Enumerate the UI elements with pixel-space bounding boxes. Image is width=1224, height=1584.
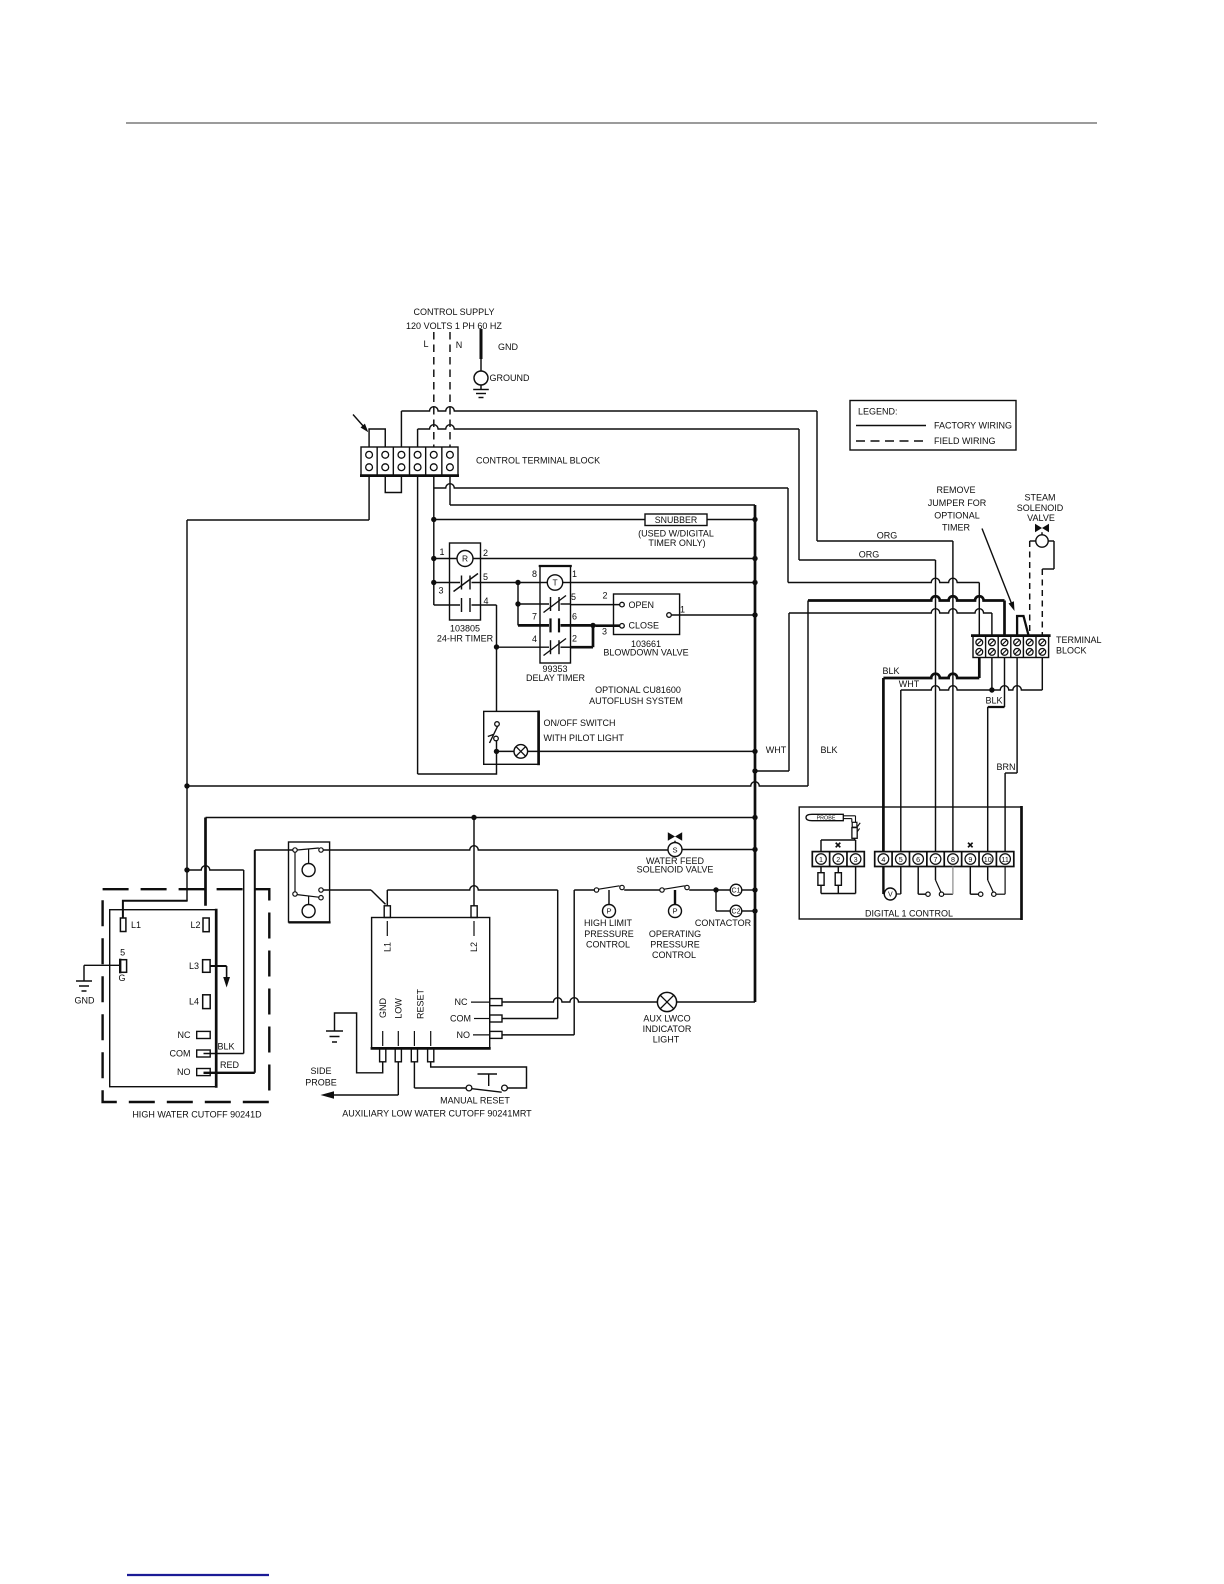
- svg-text:R: R: [462, 553, 468, 563]
- svg-text:ORG: ORG: [859, 550, 880, 560]
- wire close row bold: [518, 624, 549, 627]
- svg-text:P: P: [672, 907, 677, 916]
- terminal block right: [973, 636, 1049, 658]
- float switch box: [289, 842, 330, 922]
- aux bottom stub 2: [411, 1048, 417, 1061]
- svg-text:L1: L1: [382, 942, 392, 952]
- junction bus: [752, 749, 757, 754]
- svg-text:DIGITAL 1 CONTROL: DIGITAL 1 CONTROL: [865, 908, 953, 918]
- wire cell4 top run: [418, 425, 799, 560]
- aux bottom stub 1: [395, 1048, 401, 1061]
- hl contact left: [594, 888, 598, 892]
- float ball top: [302, 864, 315, 877]
- hwc COM stub: [197, 1050, 211, 1057]
- wire row 558.5 right: [473, 558, 755, 560]
- svg-text:GND: GND: [378, 998, 388, 1019]
- svg-text:WHT: WHT: [766, 745, 787, 755]
- wire com-blk riser: [187, 866, 244, 1054]
- aux COM dash: [474, 1018, 490, 1020]
- hwc COM wire BLK: [204, 1053, 244, 1055]
- svg-text:1: 1: [680, 605, 685, 615]
- junction bus: [752, 847, 757, 852]
- svg-text:BLK: BLK: [985, 696, 1002, 706]
- svg-text:SIDE: SIDE: [310, 1066, 331, 1076]
- wire row 582.5 left: [434, 582, 460, 584]
- svg-text:STEAM: STEAM: [1024, 493, 1055, 503]
- svg-text:CONTROL SUPPLY: CONTROL SUPPLY: [413, 307, 494, 317]
- manual reset actuator: [488, 1074, 490, 1086]
- svg-text:S: S: [672, 845, 677, 854]
- junction: [989, 687, 994, 692]
- probe capsule: [806, 814, 843, 820]
- svg-text:7: 7: [532, 612, 537, 622]
- wire red to float: [255, 849, 293, 851]
- aux NC dash: [471, 1001, 490, 1003]
- svg-text:3: 3: [854, 855, 858, 864]
- svg-text:NO: NO: [177, 1067, 191, 1077]
- junction bus: [752, 887, 757, 892]
- wire pin4 delay row: [497, 646, 550, 648]
- probe rail: [821, 893, 856, 895]
- svg-text:BLOCK: BLOCK: [1056, 646, 1087, 656]
- svg-text:PRESSURE: PRESSURE: [650, 940, 700, 950]
- hl P stem: [608, 890, 610, 905]
- svg-text:(USED W/DIGITAL: (USED W/DIGITAL: [638, 528, 714, 538]
- wire aux gnd: [335, 1013, 383, 1073]
- contactor C1: [730, 884, 742, 896]
- wire ORG1 drop to T8: [952, 541, 954, 852]
- contact delay 5 plates: [550, 597, 552, 611]
- svg-text:SOLENOID: SOLENOID: [1017, 503, 1064, 513]
- hl P circle: [603, 905, 616, 918]
- wire ORG2: [799, 559, 936, 561]
- wire cell5 branch right: [434, 484, 980, 636]
- svg-text:L2: L2: [190, 920, 200, 930]
- hwc outer dashed box: [103, 889, 270, 1102]
- junction: [184, 783, 189, 788]
- float bottom blade: [297, 895, 319, 898]
- digital strip 1-3: [812, 852, 864, 867]
- svg-text:VALVE: VALVE: [1027, 513, 1055, 523]
- svg-text:2: 2: [572, 634, 577, 644]
- resistor R1: [820, 867, 822, 873]
- aux NO dash: [473, 1034, 490, 1036]
- svg-text:HIGH LIMIT: HIGH LIMIT: [584, 918, 633, 928]
- wire ORG1: [817, 540, 953, 542]
- svg-text:OPTIONAL: OPTIONAL: [934, 511, 980, 521]
- switch contact bottom: [494, 736, 499, 741]
- svg-text:L4: L4: [189, 997, 199, 1007]
- aux lamp: [657, 992, 676, 1011]
- hwc ground symbol: [76, 980, 92, 982]
- junction bus: [752, 556, 757, 561]
- wire lamp line: [502, 998, 657, 1002]
- junction bus: [752, 908, 757, 913]
- svg-text:CLOSE: CLOSE: [629, 621, 660, 631]
- svg-text:L2: L2: [469, 942, 479, 952]
- switch contact top: [495, 722, 500, 727]
- float ball bottom: [302, 905, 315, 918]
- aux NO stub: [490, 1031, 502, 1038]
- junction: [590, 623, 595, 628]
- slash delay 2: [544, 639, 567, 656]
- 24-hr timer box: [450, 543, 481, 620]
- wire L2 hwc bold: [204, 818, 207, 906]
- junction: [431, 556, 436, 561]
- wire c1 to bus: [742, 889, 755, 891]
- float top contact right: [319, 848, 323, 852]
- wire rtb3 to T10: [988, 658, 1005, 852]
- aux bottom stub 0: [380, 1048, 386, 1061]
- svg-text:L3: L3: [189, 961, 199, 971]
- svg-text:NC: NC: [178, 1030, 191, 1040]
- svg-text:9: 9: [968, 855, 972, 864]
- GND bar: [480, 329, 483, 359]
- hwc L3 terminal: [203, 960, 211, 973]
- relay coil R: [457, 551, 473, 567]
- aux bottom stub 3: [428, 1048, 434, 1061]
- junction: [515, 580, 520, 585]
- contact 24hr NO: [461, 598, 463, 612]
- svg-text:LEGEND:: LEGEND:: [858, 407, 898, 417]
- wire L1 row right: [387, 886, 557, 890]
- svg-text:FIELD WIRING: FIELD WIRING: [934, 436, 996, 446]
- on/off switch box: [484, 711, 539, 764]
- x mark 2: [968, 843, 973, 848]
- svg-text:PROBE: PROBE: [817, 815, 836, 821]
- wire aux NO up: [502, 890, 574, 1035]
- svg-text:3: 3: [438, 586, 443, 596]
- probe heater: [852, 822, 857, 827]
- wire close branch left: [571, 646, 594, 649]
- snubber wire left: [434, 519, 645, 521]
- svg-text:CONTROL: CONTROL: [586, 940, 630, 950]
- wire float out lower: [323, 889, 371, 891]
- svg-text:NC: NC: [455, 997, 468, 1007]
- wire y786 to blk riser: [187, 601, 808, 787]
- delay timer box: [540, 566, 571, 663]
- svg-text:SOLENOID VALVE: SOLENOID VALVE: [637, 865, 714, 875]
- float bottom contact out: [319, 888, 323, 892]
- blowdown valve box: [614, 594, 680, 635]
- aux L2 stub: [471, 906, 477, 918]
- svg-text:103805: 103805: [450, 624, 480, 634]
- wire open row out: [561, 603, 571, 605]
- junction bus: [752, 768, 757, 773]
- svg-text:CONTACTOR: CONTACTOR: [695, 918, 752, 928]
- ground circle: [474, 371, 488, 385]
- wire water feed line: [323, 846, 668, 850]
- jumper staple: [1017, 616, 1029, 636]
- svg-text:10: 10: [984, 855, 992, 864]
- wire pin4 drop: [496, 605, 498, 711]
- svg-text:5: 5: [899, 855, 903, 864]
- aux L1 tick: [386, 921, 388, 936]
- V meter: [882, 867, 884, 895]
- wire rtb4 to T11 BRN: [1005, 658, 1017, 852]
- wire diagonal to L1 aux: [371, 890, 386, 904]
- svg-text:GROUND: GROUND: [490, 373, 530, 383]
- junction: [431, 580, 436, 585]
- aux L1 stub: [384, 906, 390, 918]
- wire switch to dot: [496, 741, 498, 752]
- hwc 5G terminal: [120, 960, 126, 973]
- svg-text:4: 4: [532, 634, 537, 644]
- junction bus: [752, 517, 757, 522]
- svg-text:LIGHT: LIGHT: [653, 1035, 680, 1045]
- probe leads: [843, 815, 855, 817]
- float bottom linkage: [308, 896, 310, 904]
- junction: [184, 867, 189, 872]
- probe tick: [857, 823, 860, 827]
- wire cell4 long drop: [417, 475, 419, 774]
- wire open to valve: [571, 604, 620, 606]
- hwc L1 terminal: [120, 918, 126, 932]
- svg-text:RED: RED: [220, 1060, 240, 1070]
- float top contact left: [293, 848, 297, 852]
- wire L1 feed elbow: [123, 901, 188, 918]
- svg-text:8: 8: [951, 855, 955, 864]
- svg-text:CONTROL TERMINAL BLOCK: CONTROL TERMINAL BLOCK: [476, 456, 600, 466]
- wire branch 518 down: [517, 583, 519, 605]
- svg-text:8: 8: [532, 569, 537, 579]
- jumper arrow: [982, 529, 1011, 603]
- svg-text:TIMER: TIMER: [942, 523, 970, 533]
- svg-text:NO: NO: [457, 1030, 471, 1040]
- wire reset right: [431, 1062, 527, 1088]
- wire cell5 relay bus: [433, 475, 435, 605]
- float top blade: [297, 848, 319, 850]
- wire lamp to bus: [677, 1001, 755, 1003]
- svg-text:RESET: RESET: [416, 988, 426, 1019]
- svg-text:TIMER ONLY): TIMER ONLY): [648, 538, 705, 548]
- aux bottom tick 2: [413, 1031, 415, 1046]
- aux ground symbol: [326, 1030, 343, 1032]
- svg-text:OPERATING: OPERATING: [649, 929, 701, 939]
- steam valve stem: [1041, 532, 1043, 535]
- junction: [713, 887, 718, 892]
- open terminal circle: [620, 602, 625, 607]
- wire contact to T8: [944, 893, 953, 895]
- svg-text:2: 2: [483, 548, 488, 558]
- wire onoff bottom elbow: [418, 751, 497, 774]
- hl blade: [599, 886, 620, 889]
- float bottom contact blade-end: [319, 896, 323, 900]
- pilot lamp: [514, 745, 528, 759]
- svg-text:6: 6: [916, 855, 920, 864]
- manual reset contact left: [466, 1085, 472, 1091]
- slash 24hr NC: [454, 574, 479, 592]
- steam valve left leg: [1030, 540, 1036, 542]
- svg-text:BLK: BLK: [882, 666, 899, 676]
- ground symbol: [480, 385, 482, 390]
- op contact left: [660, 888, 664, 892]
- wire branch 518 down2: [517, 604, 519, 625]
- aux L2 tick: [473, 921, 475, 936]
- snubber box: [645, 514, 707, 526]
- wire blowdown pin1 to bus: [671, 614, 755, 616]
- junction bus: [752, 815, 757, 820]
- svg-text:T: T: [552, 577, 557, 587]
- wire row 558.5 left: [434, 558, 457, 560]
- junction: [515, 601, 520, 606]
- control terminal block: [361, 447, 458, 475]
- float bottom contact left: [293, 892, 297, 896]
- hwc inner box: [110, 910, 217, 1087]
- wire high limit feed: [574, 889, 594, 891]
- junction: [471, 815, 476, 820]
- svg-text:OPTIONAL CU81600: OPTIONAL CU81600: [595, 685, 681, 695]
- float top linkage: [308, 849, 310, 864]
- manual reset blade: [472, 1089, 502, 1093]
- wire cell1 down: [368, 475, 370, 520]
- wire c2 to bus: [742, 910, 755, 912]
- hwc NO wire RED bold: [204, 1072, 255, 1074]
- svg-text:2: 2: [602, 591, 607, 601]
- op P circle: [669, 905, 682, 918]
- svg-text:WITH PILOT LIGHT: WITH PILOT LIGHT: [544, 733, 625, 743]
- steam valve right leg: [1048, 540, 1054, 542]
- wire L field dashed: [433, 332, 435, 447]
- x mark 1: [836, 843, 841, 848]
- svg-text:ON/OFF SWITCH: ON/OFF SWITCH: [544, 718, 616, 728]
- svg-text:AUTOFLUSH SYSTEM: AUTOFLUSH SYSTEM: [589, 696, 683, 706]
- contact delay 2 plates: [550, 640, 552, 654]
- aux COM stub: [490, 1015, 502, 1022]
- junction: [494, 749, 499, 754]
- op blade: [664, 886, 685, 889]
- svg-text:GND: GND: [498, 342, 519, 352]
- svg-text:5: 5: [120, 948, 125, 958]
- page top rule: [126, 122, 1097, 124]
- svg-text:DELAY TIMER: DELAY TIMER: [526, 673, 586, 683]
- wire cell3 top run: [401, 407, 817, 541]
- wire bold BLK to terminal block: [808, 596, 1005, 600]
- timer coil T: [547, 575, 562, 590]
- wire row 605 left: [434, 604, 460, 606]
- hwc L4 terminal: [203, 995, 211, 1009]
- wire N field dashed: [449, 332, 451, 447]
- wire pin2 row: [561, 646, 571, 648]
- svg-text:BLK: BLK: [820, 745, 837, 755]
- water valve stem: [674, 841, 676, 843]
- steam valve bowtie: [1035, 524, 1042, 532]
- hwc gnd wire: [84, 964, 120, 966]
- svg-text:AUX LWCO: AUX LWCO: [643, 1014, 690, 1024]
- manual reset contact right: [502, 1085, 508, 1091]
- svg-text:5: 5: [571, 592, 576, 602]
- resistor R2: [837, 867, 839, 873]
- water valve coil S: [668, 843, 682, 857]
- wire WHT rtb6 to T5: [901, 658, 1043, 852]
- svg-text:LOW: LOW: [393, 998, 403, 1019]
- svg-text:4: 4: [881, 855, 885, 864]
- wire reset left: [413, 1062, 415, 1088]
- junction bus: [752, 612, 757, 617]
- svg-text:P: P: [606, 907, 611, 916]
- junction: [494, 644, 499, 649]
- svg-text:OPEN: OPEN: [629, 600, 655, 610]
- op P stem bold: [674, 890, 676, 905]
- wire aux low to side probe: [397, 1062, 399, 1095]
- contact 9-10: [969, 867, 971, 895]
- legend factory line: [856, 425, 926, 427]
- svg-text:6: 6: [572, 611, 577, 621]
- contact delay 6 plates: [549, 618, 551, 632]
- contact 24hr NC: [461, 576, 463, 590]
- svg-text:C1: C1: [732, 887, 741, 894]
- wire red riser: [254, 850, 256, 1073]
- float left drop: [294, 852, 296, 892]
- svg-text:MANUAL RESET: MANUAL RESET: [440, 1096, 510, 1106]
- svg-text:5: 5: [483, 572, 488, 582]
- bus right: [754, 505, 757, 1002]
- wire L2 aux drop: [473, 818, 475, 906]
- svg-text:L: L: [423, 339, 428, 349]
- wire op to c1: [689, 889, 730, 891]
- wire rtb2 down: [991, 658, 993, 691]
- wire hl to op: [624, 889, 660, 891]
- switch blade: [490, 727, 498, 744]
- op contact right: [685, 885, 689, 889]
- svg-text:1: 1: [572, 569, 577, 579]
- junction bus: [752, 580, 757, 585]
- wire water valve to bus: [682, 849, 755, 851]
- svg-text:JUMPER FOR: JUMPER FOR: [928, 498, 987, 508]
- aux NC stub: [490, 999, 502, 1006]
- hwc NO stub: [197, 1069, 211, 1076]
- wire close row bold mid: [561, 624, 591, 627]
- svg-text:SNUBBER: SNUBBER: [655, 515, 698, 525]
- svg-text:INDICATOR: INDICATOR: [643, 1024, 692, 1034]
- junction: [431, 517, 436, 522]
- contact 6-7: [917, 867, 919, 895]
- svg-text:2: 2: [836, 855, 840, 864]
- svg-text:C2: C2: [732, 908, 741, 915]
- close terminal circle: [620, 624, 625, 629]
- probe node wires: [854, 838, 856, 840]
- svg-text:24-HR TIMER: 24-HR TIMER: [437, 634, 494, 644]
- digital box: [799, 807, 1021, 919]
- aux bottom tick 1: [397, 1031, 399, 1046]
- arrow at control terminal block: [353, 415, 364, 427]
- svg-text:BLOWDOWN VALVE: BLOWDOWN VALVE: [603, 647, 688, 657]
- svg-text:BRN: BRN: [996, 762, 1015, 772]
- svg-text:L1: L1: [131, 920, 141, 930]
- wire ORG2 drop to T7: [935, 560, 937, 852]
- legend box: [850, 401, 1016, 451]
- svg-text:1: 1: [819, 855, 823, 864]
- wire wht neutral run: [755, 609, 992, 771]
- aux bottom tick 3: [430, 1031, 432, 1046]
- jumper cells 2-3 below: [385, 475, 401, 492]
- wire delay pin1 to bus: [571, 582, 756, 584]
- svg-text:120 VOLTS 1 PH 60 HZ: 120 VOLTS 1 PH 60 HZ: [406, 321, 502, 331]
- svg-text:1: 1: [439, 547, 444, 557]
- wire BLK bold rtb1 to T4: [883, 658, 979, 852]
- svg-text:3: 3: [602, 627, 607, 637]
- svg-text:CONTROL: CONTROL: [652, 950, 696, 960]
- wire left riser x187: [186, 520, 188, 901]
- svg-text:ORG: ORG: [877, 531, 898, 541]
- hwc L2 terminal: [203, 918, 209, 932]
- water valve bowtie: [668, 832, 675, 840]
- svg-text:PROBE: PROBE: [305, 1078, 337, 1088]
- wire c2 branch: [715, 890, 717, 911]
- jumper cells 1-2 above: [369, 429, 385, 447]
- wire pilot to bus: [528, 750, 755, 752]
- wire row 582.5 mid: [472, 582, 541, 584]
